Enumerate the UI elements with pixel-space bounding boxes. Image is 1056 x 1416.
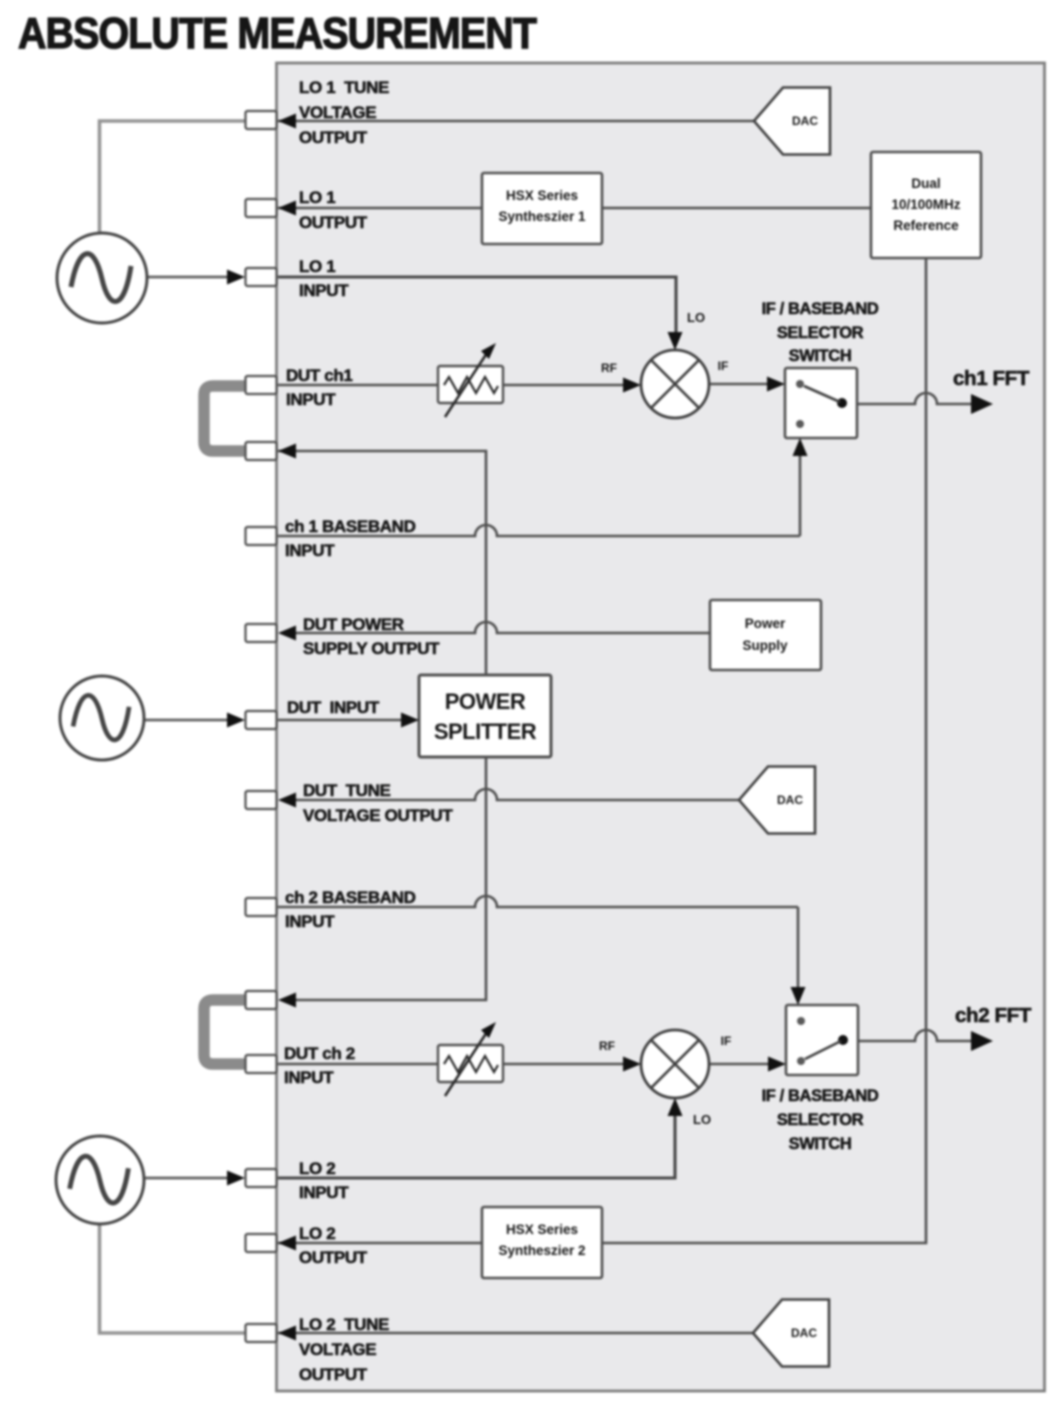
svg-text:IF / BASEBAND: IF / BASEBAND — [762, 300, 879, 318]
svg-text:DUT ch 2: DUT ch 2 — [284, 1044, 355, 1063]
svg-text:DAC: DAC — [791, 1326, 817, 1340]
svg-text:ch1 FFT: ch1 FFT — [953, 368, 1029, 390]
svg-text:LO 1: LO 1 — [299, 188, 335, 207]
svg-text:SWITCH: SWITCH — [789, 347, 852, 365]
svg-text:HSX Series: HSX Series — [506, 1222, 578, 1237]
svg-text:SELECTOR: SELECTOR — [777, 324, 864, 342]
svg-text:OUTPUT: OUTPUT — [299, 1365, 368, 1384]
svg-text:SWITCH: SWITCH — [789, 1135, 852, 1153]
svg-text:LO 2: LO 2 — [299, 1159, 335, 1178]
svg-text:LO 1: LO 1 — [299, 257, 335, 276]
svg-text:INPUT: INPUT — [299, 281, 349, 300]
svg-text:OUTPUT: OUTPUT — [299, 128, 368, 147]
svg-text:INPUT: INPUT — [286, 390, 336, 409]
svg-text:INPUT: INPUT — [285, 912, 335, 931]
svg-text:Syntheszier 1: Syntheszier 1 — [498, 209, 586, 224]
svg-text:ABSOLUTE MEASUREMENT: ABSOLUTE MEASUREMENT — [18, 9, 537, 58]
svg-text:VOLTAGE OUTPUT: VOLTAGE OUTPUT — [303, 806, 453, 825]
svg-text:HSX Series: HSX Series — [506, 188, 578, 203]
svg-text:DUT POWER: DUT POWER — [303, 615, 404, 634]
svg-text:OUTPUT: OUTPUT — [299, 213, 368, 232]
svg-text:ch2 FFT: ch2 FFT — [955, 1005, 1031, 1027]
svg-text:VOLTAGE: VOLTAGE — [299, 1340, 376, 1359]
svg-text:IF: IF — [718, 359, 729, 373]
svg-text:DUT INPUT: DUT INPUT — [287, 698, 380, 717]
svg-text:DUT TUNE: DUT TUNE — [303, 781, 391, 800]
svg-text:INPUT: INPUT — [284, 1068, 334, 1087]
svg-text:SELECTOR: SELECTOR — [777, 1111, 864, 1129]
svg-text:INPUT: INPUT — [285, 541, 335, 560]
svg-text:INPUT: INPUT — [299, 1183, 349, 1202]
svg-text:POWER: POWER — [445, 689, 526, 714]
svg-text:LO: LO — [687, 310, 705, 325]
svg-text:DUT ch1: DUT ch1 — [286, 366, 353, 385]
svg-text:LO 1 TUNE: LO 1 TUNE — [299, 78, 389, 97]
svg-text:SPLITTER: SPLITTER — [434, 719, 537, 744]
svg-text:ch 2 BASEBAND: ch 2 BASEBAND — [285, 888, 416, 907]
svg-text:Syntheszier 2: Syntheszier 2 — [498, 1243, 585, 1258]
svg-text:DAC: DAC — [777, 793, 803, 807]
svg-text:Reference: Reference — [893, 218, 959, 233]
svg-text:Supply: Supply — [742, 638, 787, 653]
svg-text:DAC: DAC — [792, 114, 818, 128]
svg-text:LO 2: LO 2 — [299, 1224, 335, 1243]
svg-text:Power: Power — [745, 616, 786, 631]
svg-text:SUPPLY OUTPUT: SUPPLY OUTPUT — [303, 639, 440, 658]
svg-text:LO: LO — [693, 1112, 711, 1127]
svg-text:VOLTAGE: VOLTAGE — [299, 103, 376, 122]
svg-text:IF / BASEBAND: IF / BASEBAND — [762, 1087, 879, 1105]
svg-text:LO 2 TUNE: LO 2 TUNE — [299, 1315, 389, 1334]
svg-text:OUTPUT: OUTPUT — [299, 1248, 368, 1267]
svg-text:ch 1 BASEBAND: ch 1 BASEBAND — [285, 517, 416, 536]
svg-text:10/100MHz: 10/100MHz — [891, 197, 960, 212]
svg-text:RF: RF — [601, 361, 617, 375]
svg-text:IF: IF — [721, 1034, 732, 1048]
svg-text:RF: RF — [599, 1039, 615, 1053]
svg-text:Dual: Dual — [911, 176, 940, 191]
